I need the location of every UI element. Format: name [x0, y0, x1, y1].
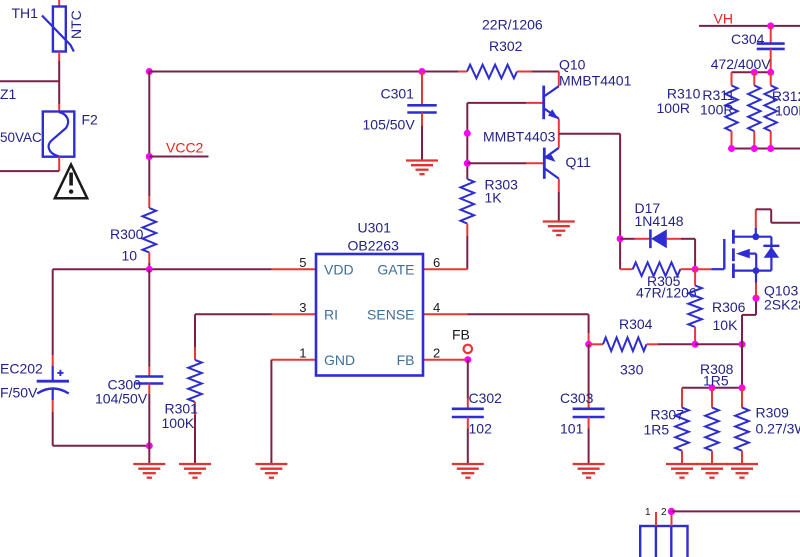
svg-text:VCC2: VCC2: [166, 140, 204, 156]
transformer T primary winding: [640, 526, 687, 557]
wire GATE pin 6: [423, 268, 468, 270]
node R308 top: [709, 384, 716, 391]
svg-text:R309: R309: [756, 405, 790, 421]
node D17 anode: [617, 235, 624, 242]
node VDD rail junction: [146, 266, 153, 273]
wire Q103 drain step: [756, 209, 800, 228]
svg-text:2SK2882: 2SK2882: [764, 297, 800, 313]
resistor R302: [467, 17, 543, 79]
svg-text:R307: R307: [651, 407, 685, 423]
resistor R300: [110, 208, 156, 269]
transistor Q11 MMBT4403: [467, 129, 591, 222]
svg-text:1R5: 1R5: [644, 422, 670, 438]
capacitor EC202 electrolytic: [0, 269, 149, 446]
resistor R312: [765, 72, 800, 148]
svg-text:0.27/3W: 0.27/3W: [756, 421, 800, 437]
svg-text:102: 102: [469, 421, 493, 437]
resistor R306: [688, 269, 745, 344]
resistor R304: [589, 316, 696, 378]
wire TH1 to fuse: [58, 52, 60, 112]
svg-text:C302: C302: [469, 390, 503, 406]
svg-text:RI: RI: [324, 307, 338, 323]
svg-text:EC202: EC202: [0, 361, 43, 377]
wire R302 to Q10 collector: [517, 72, 559, 87]
pin 2 transformer: [661, 507, 672, 526]
svg-text:Q11: Q11: [566, 154, 592, 170]
svg-text:3: 3: [299, 300, 306, 315]
ground below C303: [573, 464, 605, 478]
node R312 top: [767, 69, 774, 76]
svg-text:FB: FB: [452, 327, 470, 343]
wire GND pin 1: [271, 360, 316, 464]
svg-text:472/400V: 472/400V: [711, 56, 772, 72]
svg-text:22R/1206: 22R/1206: [482, 17, 543, 33]
svg-text:1: 1: [299, 345, 306, 360]
svg-text:F2: F2: [82, 112, 99, 128]
resistor R309: [735, 388, 800, 464]
capacitor C301: [363, 68, 437, 161]
svg-text:5: 5: [299, 255, 306, 270]
svg-text:Q10: Q10: [559, 57, 586, 73]
node R309 top: [739, 384, 746, 391]
resistor R307: [644, 388, 689, 464]
node R306 bottom: [692, 341, 699, 348]
svg-text:R306: R306: [712, 299, 746, 315]
svg-text:C303: C303: [560, 390, 594, 406]
resistor R303: [461, 177, 519, 270]
node R311 top: [751, 69, 758, 76]
wire sense resistor bus: [682, 344, 742, 388]
node R312 bottom: [767, 145, 774, 152]
svg-text:6: 6: [433, 255, 440, 270]
svg-text:TH1: TH1: [12, 5, 39, 21]
op-amp U301 OB2263 controller IC: [316, 220, 423, 376]
resistor R301: [162, 314, 317, 464]
diode D17 1N4148: [620, 200, 695, 269]
svg-text:1N4148: 1N4148: [635, 213, 684, 229]
node R310 bottom: [728, 145, 735, 152]
svg-text:10K: 10K: [713, 317, 739, 333]
svg-text:VH: VH: [714, 11, 733, 27]
svg-text:10: 10: [122, 248, 138, 264]
svg-text:R304: R304: [619, 316, 653, 332]
svg-text:4: 4: [433, 300, 440, 315]
svg-text:MMBT4403: MMBT4403: [483, 129, 556, 145]
mosfet Q103 2SK2882: [695, 228, 800, 313]
svg-text:1R5: 1R5: [703, 373, 729, 389]
svg-text:100R: 100R: [775, 103, 800, 119]
svg-text:MMBT4401: MMBT4401: [559, 73, 632, 89]
node sense left: [585, 341, 592, 348]
svg-text:1: 1: [645, 507, 651, 518]
ground below C301: [406, 161, 438, 175]
net label VH: [699, 11, 800, 27]
svg-text:100R: 100R: [657, 100, 690, 116]
node VH junction: [767, 22, 774, 29]
transistor Q10 MMBT4401: [467, 57, 631, 134]
wire AC input upper: [0, 80, 59, 82]
wire SENSE net: [423, 314, 589, 344]
wire base drive vertical: [466, 103, 468, 179]
wire snubber top rail: [732, 71, 771, 73]
svg-text:105/50V: 105/50V: [363, 117, 416, 133]
ground below R307: [666, 464, 698, 478]
svg-text:1K: 1K: [485, 190, 503, 206]
wire emitter rail to D17 node: [559, 134, 620, 270]
ground below R308: [696, 464, 728, 478]
resistor R305: [620, 262, 697, 300]
node source sense: [739, 341, 746, 348]
node VCC2 junction top: [146, 68, 153, 75]
svg-text:50VAC: 50VAC: [0, 130, 42, 145]
svg-text:OB2263: OB2263: [348, 238, 400, 254]
net label VCC2: [146, 140, 209, 161]
node C300 bottom: [146, 442, 153, 449]
capacitor C303: [560, 344, 605, 464]
node transformer pin 2: [668, 508, 675, 515]
wire snubber bottom rail: [730, 148, 800, 150]
capacitor C302: [452, 360, 502, 464]
svg-text:C304: C304: [731, 31, 765, 47]
svg-text:R300: R300: [110, 226, 144, 242]
svg-text:101: 101: [560, 421, 584, 437]
node base drive 1: [464, 130, 471, 137]
resistor R308: [700, 361, 734, 464]
port FB: [423, 327, 472, 360]
ground below R309: [726, 464, 758, 478]
node FB pin: [464, 356, 471, 363]
svg-text:GND: GND: [324, 352, 355, 368]
svg-text:FB: FB: [397, 352, 415, 368]
node R311 bottom: [751, 145, 758, 152]
node base drive 2: [464, 160, 471, 167]
wire VCC2 vertical: [148, 72, 150, 209]
wire fuse bottom: [0, 157, 59, 171]
ground below C300: [133, 464, 165, 478]
svg-text:2: 2: [433, 345, 440, 360]
capacitor C300: [95, 269, 163, 464]
capacitor C304: [711, 26, 785, 72]
warning triangle symbol: [55, 165, 87, 199]
svg-text:VDD: VDD: [324, 262, 354, 278]
fuse F2: [0, 112, 98, 157]
svg-text:330: 330: [620, 362, 644, 378]
ground below Q11: [543, 222, 575, 236]
svg-text:GATE: GATE: [377, 262, 414, 278]
svg-text:U301: U301: [358, 220, 392, 236]
node gate drive: [692, 266, 699, 273]
wire Q103 source path: [742, 298, 756, 344]
ground below R301: [179, 464, 211, 478]
wire VDD rail: [53, 268, 316, 270]
thermistor TH1 (NTC): [12, 0, 85, 52]
svg-text:104/50V: 104/50V: [95, 391, 148, 407]
node Q103 source stub: [753, 295, 760, 302]
wire sense rail right: [695, 343, 742, 345]
svg-text:R302: R302: [489, 38, 523, 54]
resistor R311: [700, 72, 761, 148]
svg-text:100K: 100K: [162, 415, 195, 431]
svg-text:100R: 100R: [700, 102, 733, 118]
svg-text:Z1: Z1: [0, 86, 17, 102]
wire top rail VCC2 to R302: [149, 71, 467, 73]
pin 1 transformer: [645, 507, 656, 526]
svg-text:SENSE: SENSE: [367, 307, 414, 323]
wire transformer to right: [672, 510, 800, 512]
svg-text:NTC: NTC: [68, 10, 84, 39]
svg-text:C301: C301: [381, 86, 415, 102]
resistor R310: [657, 72, 738, 148]
svg-text:F/50V: F/50V: [0, 385, 38, 401]
ground below pin 1: [255, 464, 287, 478]
svg-text:2: 2: [661, 507, 667, 518]
ground below C302: [452, 464, 484, 478]
